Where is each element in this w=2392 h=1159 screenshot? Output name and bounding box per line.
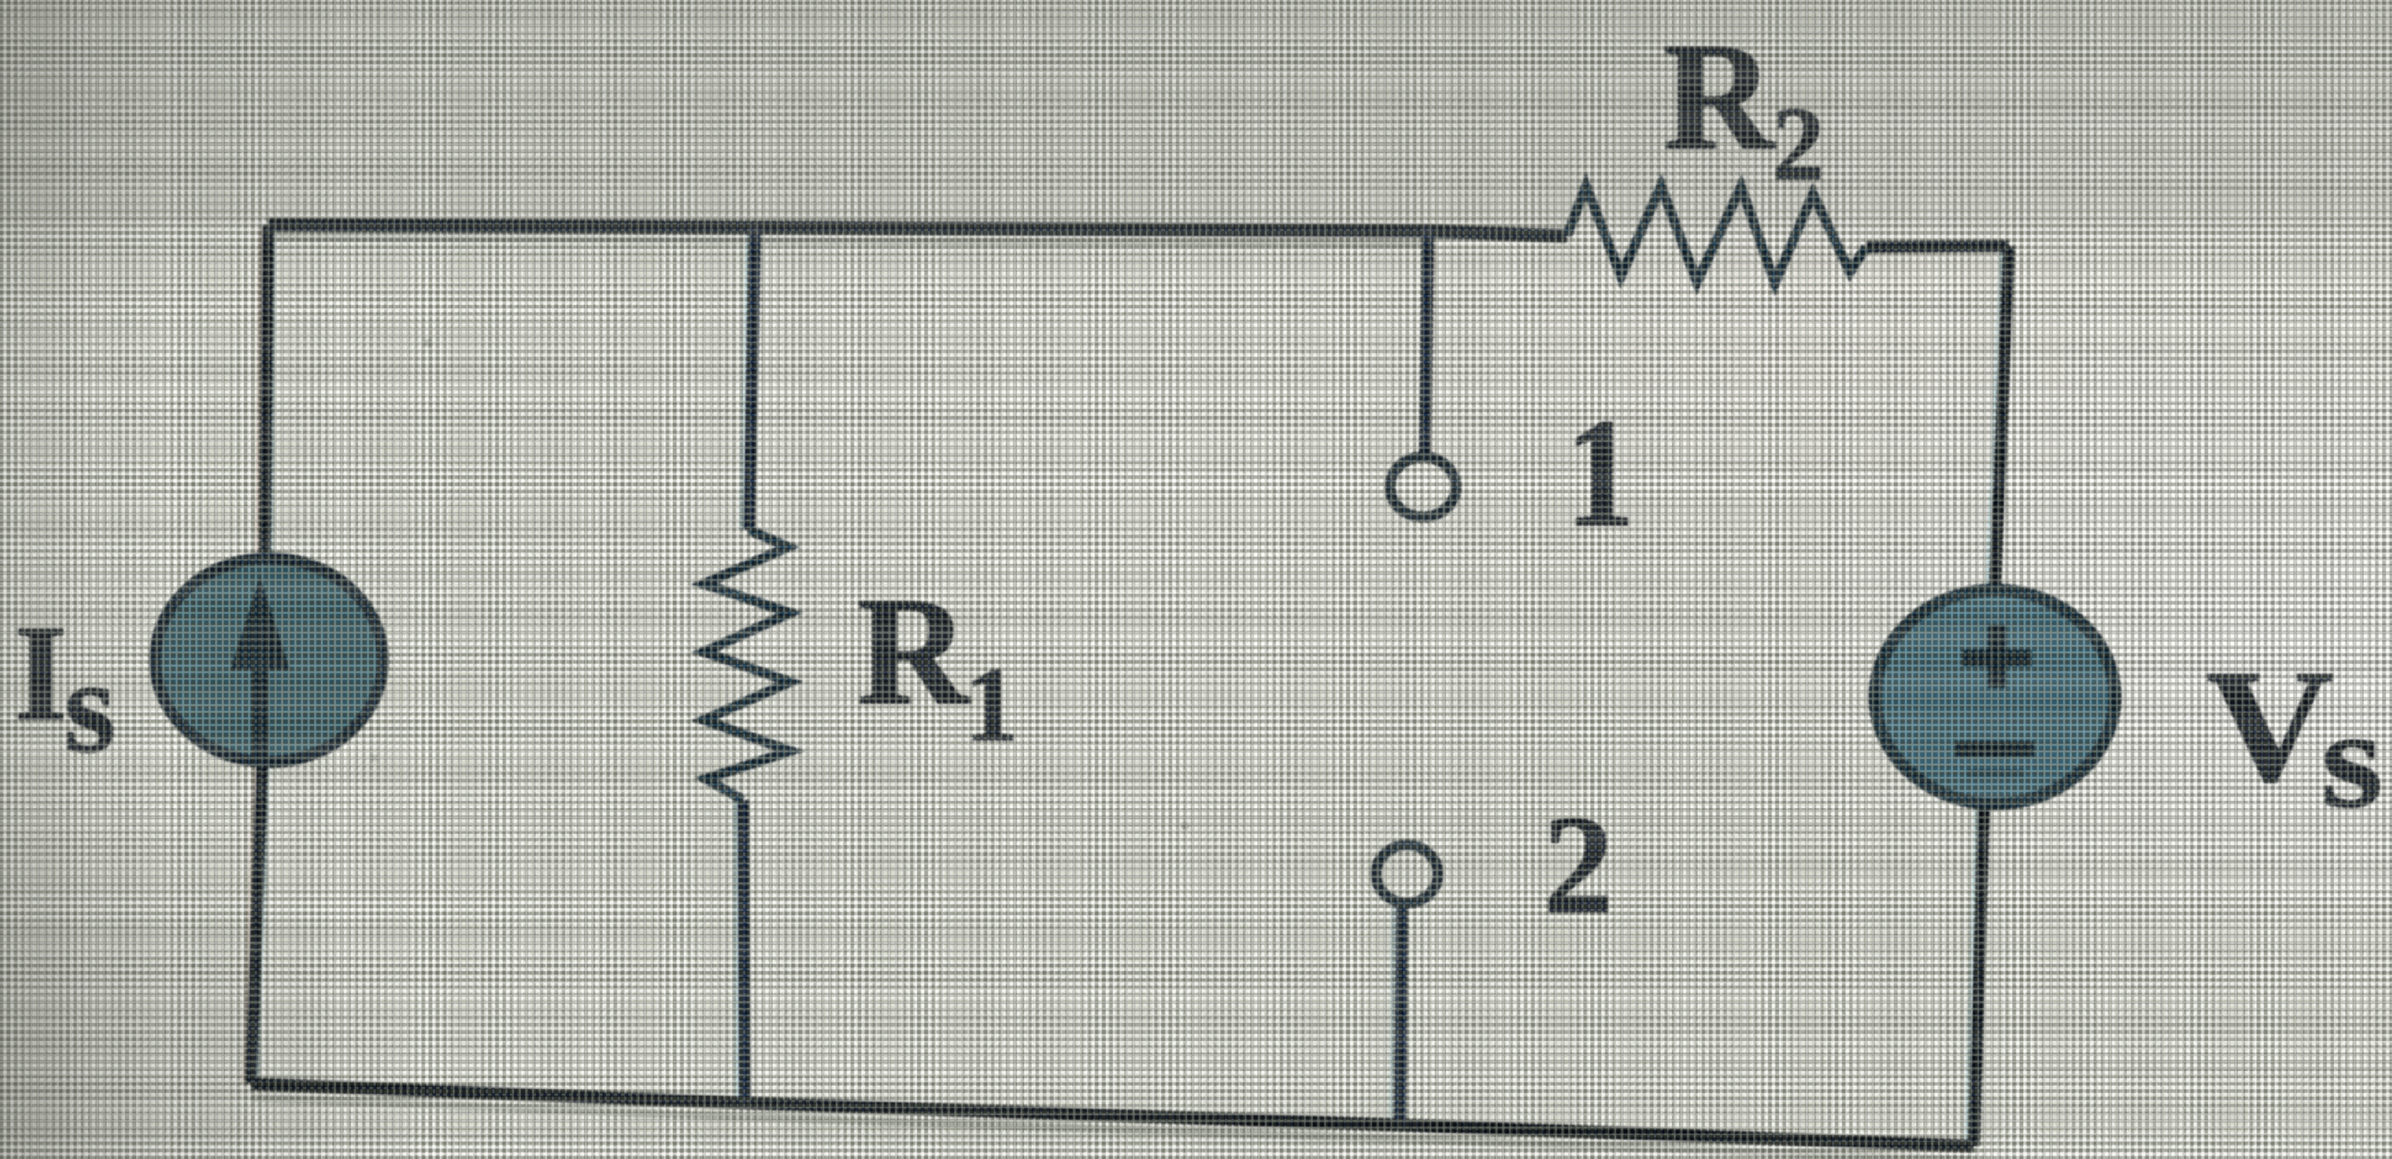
wire fringe warm terminal1 stub (1430, 240, 1433, 453)
wire left vertical upper (265, 225, 268, 554)
resistor R1 (704, 530, 790, 800)
wire R1 bottom stub (743, 800, 745, 1103)
wire fringe warm left vertical (243, 228, 260, 1084)
wire fringe cyan right vertical (1966, 250, 2001, 1146)
wire fringe cyan R1 (735, 800, 737, 1103)
wire right vertical upper (1995, 246, 2009, 590)
wire left vertical lower (251, 766, 262, 1084)
junction node terminal2-bottom (1394, 1119, 1406, 1131)
junction node R1-bottom (739, 1097, 751, 1109)
wire top horizontal (268, 225, 1567, 236)
voltage source Vs (1875, 590, 2115, 804)
wire terminal 2 stub (1400, 907, 1402, 1125)
junction node terminal1-top (1422, 225, 1434, 237)
resistor R2 (1567, 186, 1866, 283)
wire fringe cyan left vertical (257, 228, 274, 1084)
dust speck C (371, 755, 378, 762)
wire bottom horizontal echo (251, 1098, 1974, 1159)
junction node R1-top (749, 225, 761, 237)
wire terminal 1 stub (1425, 231, 1428, 453)
bottom-right screen edge highlight (1987, 1150, 2392, 1159)
terminal 1 (1390, 457, 1456, 517)
wire R1 top stub (749, 231, 755, 530)
wire fringe cyan terminal2 stub (1391, 907, 1393, 1125)
current source Is (155, 558, 383, 762)
wire right vertical lower (1974, 806, 1984, 1146)
dust speck B (1181, 822, 1189, 830)
terminal 2 (1376, 845, 1438, 903)
dust speck A (424, 339, 432, 347)
wire bottom horizontal (251, 1084, 1974, 1146)
wire top-right horizontal (1866, 246, 2009, 247)
wire fringe cyan R1 top (741, 231, 747, 530)
wire top horizontal shadow (268, 238, 1427, 244)
